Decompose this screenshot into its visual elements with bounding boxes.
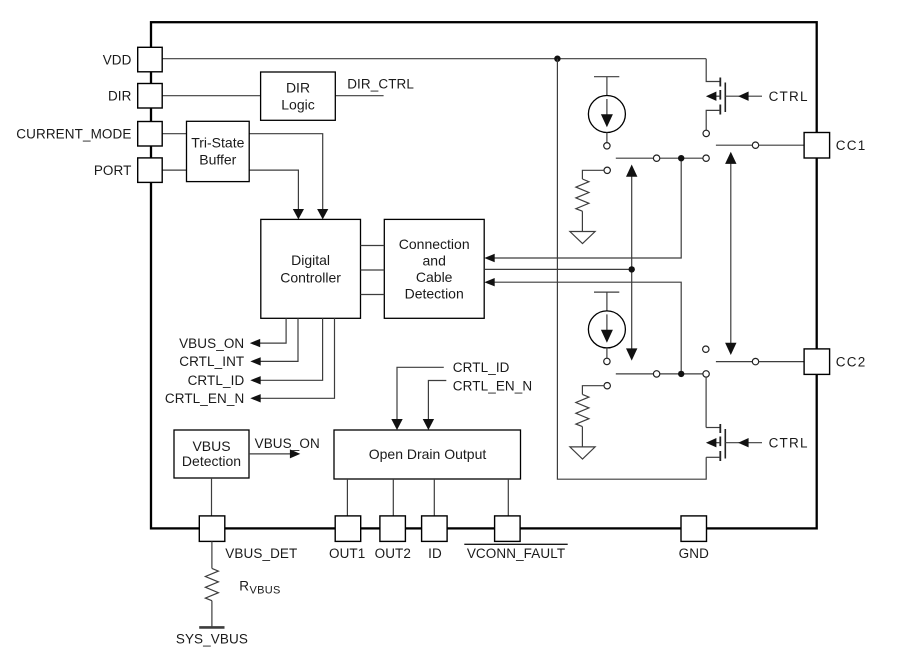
svg-text:CRTL_EN_N: CRTL_EN_N <box>165 391 244 406</box>
wire CC1 sense line into Connection Detection (from node at blade 1) <box>494 158 682 258</box>
svg-text:VBUS: VBUS <box>250 584 281 596</box>
wire selector blade 2 (Rp/Rd to CC2 network) <box>616 373 703 375</box>
component box Connection and Cable Detection <box>384 219 484 318</box>
switch contact S1c <box>752 142 758 148</box>
wire to CC1 pin <box>759 144 804 146</box>
svg-text:Tri-State: Tri-State <box>191 135 244 151</box>
wire CTRL gate line Q1 <box>725 95 762 97</box>
transistor Q1 (VCONN FET for CC1) <box>703 59 725 137</box>
node junction on VDD rail feeding left VCONN rail <box>554 56 560 62</box>
svg-text:Digital: Digital <box>291 252 330 268</box>
svg-text:VCONN_FAULT: VCONN_FAULT <box>467 546 565 561</box>
node junction blade2 / sense line <box>678 371 684 377</box>
svg-text:Buffer: Buffer <box>199 151 236 167</box>
svg-text:VBUS_ON: VBUS_ON <box>179 336 244 351</box>
svg-text:CRTL_INT: CRTL_INT <box>179 354 244 369</box>
svg-text:R: R <box>239 579 249 594</box>
wire Open Drain Output to OUT1 pin <box>346 479 348 516</box>
wire bus Digital Controller to Connection Detection (3 lines) <box>361 246 385 295</box>
switch contact S1a <box>653 155 659 161</box>
resistor RVBUS <box>205 568 218 600</box>
pin CC1 <box>804 133 830 159</box>
ground symbol G2 <box>570 447 595 459</box>
svg-text:DIR_CTRL: DIR_CTRL <box>347 77 414 92</box>
wire CC1 pin switch blade <box>716 144 752 146</box>
pin OUT2 <box>380 516 406 542</box>
svg-text:CTRL: CTRL <box>769 436 809 451</box>
wire Open Drain Output to ID pin <box>433 479 435 516</box>
svg-text:CURRENT_MODE: CURRENT_MODE <box>16 127 131 142</box>
wire to CC2 pin <box>759 361 804 363</box>
pin OUT1 <box>335 516 361 542</box>
wire RVBUS to SYS_VBUS terminal <box>211 601 213 627</box>
node junction blade1 / sense line <box>678 155 684 161</box>
svg-text:Logic: Logic <box>281 97 314 113</box>
component box Open Drain Output <box>334 430 521 479</box>
svg-text:CC2: CC2 <box>836 355 867 370</box>
wire node to Q2 drain <box>705 377 707 427</box>
transistor Q2 (VCONN FET for CC2) <box>706 424 725 461</box>
pin PORT <box>138 158 163 183</box>
svg-text:PORT: PORT <box>94 163 132 178</box>
pin CURRENT_MODE <box>138 122 163 147</box>
pin VCONN_FAULT <box>495 516 520 542</box>
switch contact S2b <box>703 371 709 377</box>
svg-text:CRTL_EN_N: CRTL_EN_N <box>453 378 532 393</box>
wire PORT pin to Tri-State Buffer <box>162 169 186 171</box>
svg-text:GND: GND <box>679 546 709 561</box>
svg-text:CC1: CC1 <box>836 138 867 153</box>
pin DIR <box>138 84 163 109</box>
wire VDD rail from VDD pin to Q1 drain <box>162 58 706 60</box>
terminal SYS_VBUS <box>199 626 224 629</box>
svg-text:DIR: DIR <box>108 89 132 104</box>
wire CRTL_ID input to Open Drain Output <box>397 367 444 419</box>
wire control rail to Rp/Rd selector switches (double arrow) <box>631 176 633 352</box>
wire VBUS_ON output from Digital Controller <box>260 318 287 343</box>
wire DIR pin to DIR Logic <box>162 95 260 97</box>
wire CRTL_INT output from Digital Controller <box>260 318 298 361</box>
switch contact S2c (open position) <box>703 346 709 352</box>
switch contact S2d <box>752 358 758 364</box>
pin CC2 <box>804 349 830 375</box>
pin ID <box>422 516 448 542</box>
node junction control rail / control line <box>629 266 635 272</box>
wire Open Drain Output to VCONN_FAULT pin <box>507 479 509 516</box>
svg-text:SYS_VBUS: SYS_VBUS <box>176 632 248 647</box>
wire control rail to CC pin switches (double arrow) <box>730 163 732 345</box>
wire CRTL_EN_N output from Digital Controller <box>260 318 335 398</box>
svg-text:DIR: DIR <box>286 80 310 96</box>
wire Tri-State Buffer output B into Digital Controller <box>249 170 298 209</box>
resistor Rd2 (CC2 pull-down) <box>576 383 611 447</box>
wire VBUS Detection to VBUS_DET pin <box>211 478 213 516</box>
switch contact S1b <box>703 155 709 161</box>
wire CC2 pin switch blade <box>716 361 752 363</box>
wire CURRENT_MODE pin to Tri-State Buffer <box>162 133 186 135</box>
wire CTRL gate line Q2 <box>725 442 762 444</box>
svg-text:VBUS_ON: VBUS_ON <box>255 436 320 451</box>
svg-text:Open Drain Output: Open Drain Output <box>369 446 487 462</box>
switch contact S2a <box>653 371 659 377</box>
current source I2 (Rp for CC2) <box>588 292 625 364</box>
wire VBUS_ON output of VBUS Detection <box>249 453 290 455</box>
wire VBUS_DET pin to RVBUS <box>211 541 213 568</box>
svg-text:Detection: Detection <box>182 453 241 469</box>
svg-text:OUT1: OUT1 <box>329 546 365 561</box>
wire Open Drain Output to OUT2 pin <box>392 479 394 516</box>
wire CC2 sense line into Connection Detection (from node at blade 2) <box>494 282 682 374</box>
svg-text:Connection: Connection <box>399 236 470 252</box>
svg-text:Cable: Cable <box>416 269 453 285</box>
wire switch control line from Connection Detection <box>484 268 631 270</box>
svg-text:Controller: Controller <box>280 269 341 285</box>
svg-text:CTRL: CTRL <box>769 89 809 104</box>
svg-text:VBUS: VBUS <box>192 438 230 454</box>
ground symbol G1 <box>570 232 595 244</box>
component box DIR Logic <box>261 72 336 120</box>
current source I1 (Rp for CC1) <box>588 77 625 149</box>
svg-text:VDD: VDD <box>103 52 132 67</box>
svg-text:VBUS_DET: VBUS_DET <box>225 546 297 561</box>
wire DIR_CTRL output of DIR Logic <box>335 95 383 97</box>
main chip boundary box <box>151 22 817 528</box>
svg-text:CRTL_ID: CRTL_ID <box>188 373 245 388</box>
pin VDD <box>138 47 163 72</box>
svg-text:Detection: Detection <box>405 286 464 302</box>
component box VBUS Detection <box>174 430 249 478</box>
wire VCONN supply rail down left side of CC network <box>557 59 706 480</box>
svg-text:and: and <box>423 253 446 269</box>
pin GND <box>681 516 707 542</box>
svg-text:CRTL_ID: CRTL_ID <box>453 360 510 375</box>
svg-text:ID: ID <box>428 546 442 561</box>
component box Digital Controller U-DC <box>261 219 361 318</box>
resistor Rd1 (CC1 pull-down) <box>576 167 611 231</box>
wire selector blade 1 (Rp/Rd to CC1 network) <box>616 157 703 159</box>
wire CRTL_EN_N input to Open Drain Output <box>428 381 446 420</box>
wire CRTL_ID output from Digital Controller <box>260 318 323 380</box>
pin VBUS_DET <box>199 516 225 542</box>
wire Tri-State Buffer output A into Digital Controller <box>249 134 323 210</box>
component box Tri-State Buffer <box>187 121 250 181</box>
svg-text:OUT2: OUT2 <box>375 546 411 561</box>
